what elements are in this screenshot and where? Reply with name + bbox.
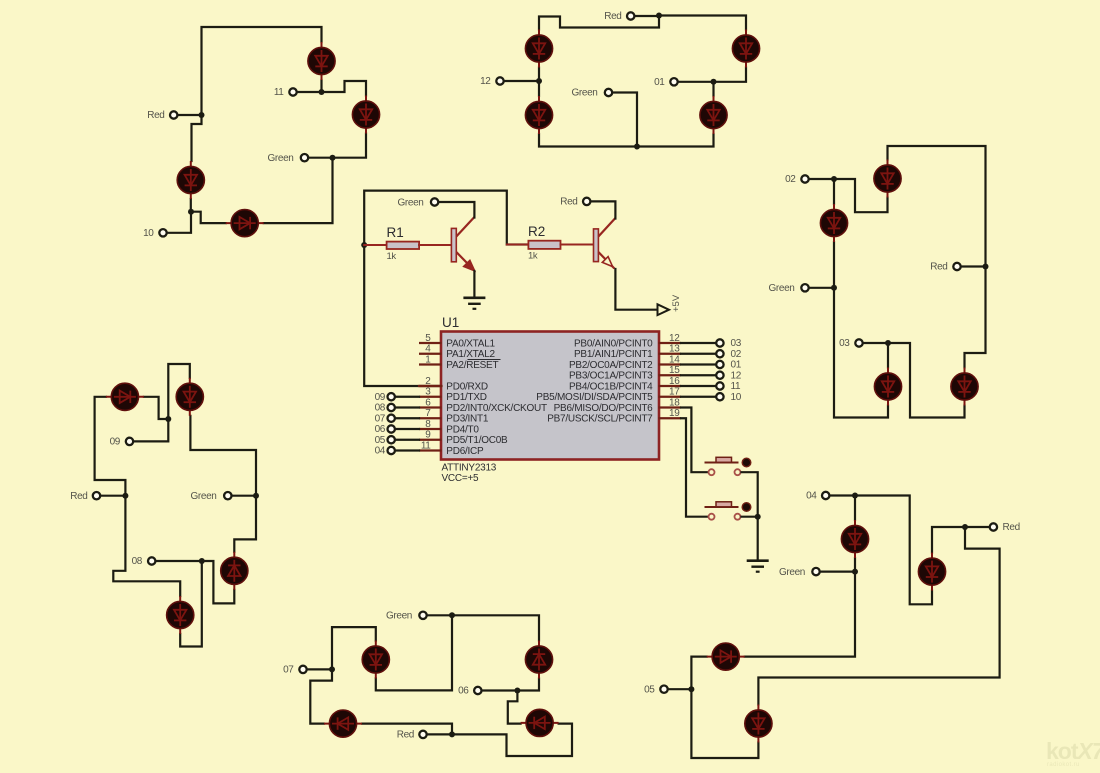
- junction R-a: [983, 264, 989, 270]
- pin 1 PA2/RESET stub: [419, 363, 442, 365]
- junction BM-b: [329, 666, 335, 672]
- terminal 05 U1: [388, 436, 395, 443]
- pin 15 PB3/OC1A/PCINT3 stub: [659, 374, 682, 376]
- wire TL 10 stub: [167, 212, 191, 233]
- wire BM Green stub: [428, 614, 453, 616]
- svg-text:PA1/XTAL2: PA1/XTAL2: [446, 349, 495, 360]
- svg-text:1: 1: [425, 354, 431, 365]
- LED D22: [707, 643, 745, 670]
- svg-text:kotX7: kotX7: [1046, 738, 1100, 764]
- resistor R1: [387, 242, 420, 249]
- wire BR D23 loop: [758, 527, 999, 705]
- wire TL Green to D2: [333, 134, 367, 158]
- svg-text:PB2/OC0A/PCINT2: PB2/OC0A/PCINT2: [569, 360, 653, 371]
- terminal Green LM: [224, 492, 231, 499]
- wire TM Red stub: [635, 15, 659, 17]
- svg-text:Red: Red: [70, 491, 87, 502]
- svg-text:6: 6: [425, 397, 431, 408]
- wire TL jog to D4: [191, 212, 226, 223]
- svg-text:09: 09: [375, 392, 386, 403]
- junction TL-b: [188, 209, 194, 215]
- junction SW node: [755, 514, 761, 520]
- wire R 03 to D12: [888, 343, 965, 418]
- wire BR Green stub: [820, 570, 855, 572]
- wire BR Red stub: [965, 526, 989, 528]
- wire pin net 02 R: [681, 353, 716, 355]
- svg-text:PD4/T0: PD4/T0: [446, 424, 479, 435]
- wire pin net 01 R: [681, 363, 716, 365]
- transistor Q1: [451, 217, 474, 271]
- wire pin2 ext: [419, 385, 442, 387]
- LED D4: [226, 210, 264, 237]
- svg-text:06: 06: [458, 686, 469, 697]
- terminal 03 U1R: [716, 339, 723, 346]
- svg-text:13: 13: [669, 344, 680, 355]
- LED D23: [745, 705, 772, 743]
- terminal 02: [801, 175, 808, 182]
- wire LM Green stub: [232, 495, 256, 497]
- terminal 11 U1R: [716, 382, 723, 389]
- wire pin net 04: [395, 449, 419, 451]
- svg-text:17: 17: [669, 387, 680, 398]
- terminal 05: [660, 686, 667, 693]
- LED D8: [700, 96, 727, 134]
- junction LM-b: [199, 558, 205, 564]
- wire BM Red stub: [428, 733, 453, 735]
- terminal 04 U1: [388, 447, 395, 454]
- junction BM-d: [514, 688, 520, 694]
- wire TL 11 stub: [297, 91, 322, 93]
- wire LM D13 right: [144, 397, 168, 419]
- wire pin net 08: [395, 406, 419, 408]
- wire LM left drop: [113, 496, 180, 596]
- wire LM D15 bottom: [180, 561, 202, 647]
- wire BR D21 top: [854, 496, 856, 521]
- svg-text:9: 9: [425, 430, 431, 441]
- wire R top: [888, 146, 986, 267]
- wire TM top right: [659, 16, 746, 30]
- wire pin net 10 R: [681, 396, 716, 398]
- LED D24: [918, 553, 945, 591]
- svg-text:19: 19: [669, 408, 680, 419]
- wire R D10 bottom: [833, 242, 835, 288]
- terminal 08: [148, 557, 155, 564]
- terminal Green TM: [605, 89, 612, 96]
- wire R Red stub: [961, 265, 986, 267]
- wire BR 05 to D23: [691, 689, 758, 758]
- LED D10: [820, 204, 847, 242]
- terminal Red LM: [93, 492, 100, 499]
- pin 2 PD0/RXD stub: [419, 385, 442, 387]
- junction BM-c: [449, 731, 455, 737]
- svg-text:PB1/AIN1/PCINT1: PB1/AIN1/PCINT1: [574, 349, 653, 360]
- wire TM 01 stub: [679, 81, 714, 83]
- svg-text:07: 07: [283, 665, 294, 676]
- terminal Red BR: [990, 523, 997, 530]
- wire pin net 05: [395, 439, 419, 441]
- wire LM D14 top: [168, 364, 190, 419]
- svg-text:05: 05: [375, 435, 386, 446]
- wire BM D19 right: [362, 724, 452, 735]
- svg-text:Green: Green: [779, 567, 805, 578]
- wire Q2 collector net: [591, 201, 615, 218]
- terminal Red R: [953, 263, 960, 270]
- svg-text:08: 08: [375, 403, 386, 414]
- wire TM bottom: [539, 134, 714, 147]
- svg-text:PD3/INT1: PD3/INT1: [446, 414, 489, 425]
- svg-text:5: 5: [425, 333, 431, 344]
- svg-text:PD5/T1/OC0B: PD5/T1/OC0B: [446, 435, 508, 446]
- terminal 11: [289, 88, 296, 95]
- wire BR 04 stub: [830, 494, 855, 496]
- LED D14: [176, 378, 203, 416]
- svg-text:PD6/ICP: PD6/ICP: [446, 446, 484, 457]
- wire BM D20 left: [508, 691, 521, 724]
- terminal 01 U1R: [716, 361, 723, 368]
- svg-text:08: 08: [132, 556, 143, 567]
- pin 11 PD6/ICP stub: [419, 449, 442, 451]
- wire R right drop: [965, 267, 986, 368]
- svg-text:PB3/OC1A/PCINT3: PB3/OC1A/PCINT3: [569, 371, 653, 382]
- LED D21: [841, 520, 868, 558]
- wire Q1 emitter net: [473, 271, 475, 297]
- wire BM 07 to D17: [332, 627, 376, 669]
- terminal 03: [855, 339, 862, 346]
- wire LM 08 to D16: [202, 561, 235, 603]
- wire R2 left lead: [507, 244, 529, 246]
- wire R2 right lead: [561, 244, 594, 246]
- junction R-c: [831, 285, 837, 291]
- svg-text:02: 02: [785, 174, 796, 185]
- svg-text:VCC=+5: VCC=+5: [442, 473, 480, 484]
- wire TL Green stub: [309, 157, 333, 159]
- watermark: [1046, 738, 1100, 768]
- svg-text:18: 18: [669, 397, 680, 408]
- wire Q2 emitter net: [615, 269, 657, 310]
- svg-text:+5V: +5V: [671, 294, 682, 312]
- svg-text:Green: Green: [190, 491, 216, 502]
- terminal 06 U1: [388, 425, 395, 432]
- wire pin net 11 R: [681, 385, 716, 387]
- LED D18: [525, 641, 552, 679]
- svg-text:R2: R2: [528, 224, 545, 239]
- pin 7 PD3/INT1 stub: [419, 417, 442, 419]
- svg-text:01: 01: [654, 77, 665, 88]
- wire BM Green to D18: [452, 615, 539, 640]
- pin 12 PB0/AIN0/PCINT0 stub: [659, 342, 682, 344]
- wire pin net 06: [395, 428, 419, 430]
- wire LM Red stub: [101, 495, 125, 497]
- svg-text:Green: Green: [768, 283, 794, 294]
- junction LM-d: [165, 416, 171, 422]
- LED D7: [732, 30, 759, 68]
- LED D19: [324, 710, 362, 737]
- svg-text:04: 04: [806, 491, 817, 502]
- terminal Red Q2: [583, 198, 590, 205]
- wire pin net 12 R: [681, 374, 716, 376]
- terminal Red TM: [627, 12, 634, 19]
- wire TM D5 top jog: [539, 16, 659, 30]
- svg-text:12: 12: [669, 333, 680, 344]
- junction TL-c: [330, 155, 336, 161]
- wire R Green stub: [809, 287, 834, 289]
- wire pin net 07: [395, 417, 419, 419]
- wire R 02 stub: [809, 178, 834, 180]
- terminal 12: [496, 77, 503, 84]
- svg-text:ATTINY2313: ATTINY2313: [442, 463, 497, 474]
- svg-text:PB6/MISO/DO/PCINT6: PB6/MISO/DO/PCINT6: [554, 403, 654, 414]
- push button SW1: [705, 457, 751, 475]
- wire pin net 03 R: [681, 342, 716, 344]
- wire TL D4 to riser: [264, 158, 333, 223]
- pin 3 PD1/TXD stub: [419, 396, 442, 398]
- wire R left drop: [834, 288, 888, 418]
- svg-text:Red: Red: [560, 197, 577, 208]
- svg-text:Green: Green: [571, 88, 597, 99]
- wire TL left jog: [192, 115, 202, 161]
- wire BM Green drop: [376, 615, 452, 690]
- terminal 04: [822, 492, 829, 499]
- wire LM D16 top: [234, 496, 256, 552]
- LED D15: [167, 596, 194, 634]
- svg-text:Red: Red: [397, 730, 414, 741]
- +5V supply symbol: [658, 294, 683, 315]
- junction TM-a: [656, 13, 662, 19]
- junction TM-b: [536, 78, 542, 84]
- junction LM-a: [122, 493, 128, 499]
- LED D9: [874, 160, 901, 198]
- wire pin19 to SW2: [681, 418, 708, 516]
- wire SW1 to SW2: [742, 472, 758, 517]
- svg-text:PA0/XTAL1: PA0/XTAL1: [446, 338, 495, 349]
- svg-text:Green: Green: [386, 611, 412, 622]
- svg-text:1k: 1k: [528, 251, 538, 262]
- wire TM 12 stub: [505, 80, 540, 82]
- junction BR-d: [962, 524, 968, 530]
- svg-text:radiokot.ru: radiokot.ru: [1047, 762, 1080, 768]
- svg-text:16: 16: [669, 376, 680, 387]
- terminal 01: [670, 78, 677, 85]
- wire TL D2 top jog: [322, 81, 367, 96]
- wire BR Green drop: [745, 572, 855, 657]
- wire pin18 to SW1: [681, 408, 708, 473]
- junction R-b: [831, 176, 837, 182]
- svg-text:12: 12: [731, 370, 742, 381]
- wire R 03 stub: [863, 342, 888, 344]
- pin 8 PD4/T0 stub: [419, 428, 442, 430]
- wire BM 06 stub: [482, 689, 517, 691]
- svg-text:11: 11: [421, 440, 431, 451]
- ground GND SW: [747, 561, 769, 572]
- LED D11: [874, 368, 901, 406]
- svg-text:PD0/RXD: PD0/RXD: [446, 381, 488, 392]
- LED D3: [177, 161, 204, 199]
- svg-text:4: 4: [425, 344, 431, 355]
- svg-text:04: 04: [375, 446, 386, 457]
- LED D6: [525, 96, 552, 134]
- terminal 07: [299, 666, 306, 673]
- wire Q1 collector net: [439, 202, 474, 218]
- wire BR D22 left: [691, 657, 706, 690]
- wire net base frame: [364, 191, 528, 386]
- pin 4 PA1/XTAL2 stub: [419, 353, 442, 355]
- wire BM 07 to D19: [310, 669, 332, 723]
- wire TM D6 top: [538, 81, 540, 96]
- wire TM D8 top: [712, 82, 714, 96]
- wire R D9 jog: [834, 179, 888, 212]
- terminal Green Q1: [431, 198, 438, 205]
- LED D13: [106, 383, 144, 410]
- svg-text:02: 02: [731, 349, 742, 360]
- transistor Q2: [594, 218, 616, 269]
- wire TL Red stub: [178, 114, 202, 116]
- svg-text:PB4/OC1B/PCINT4: PB4/OC1B/PCINT4: [569, 381, 653, 392]
- LED D12: [951, 368, 978, 406]
- wire SW2 right: [742, 516, 758, 518]
- wire BM 07 stub: [308, 668, 333, 670]
- svg-text:Green: Green: [397, 197, 423, 208]
- wire BM 06 to D18: [517, 679, 539, 691]
- terminal Green BM: [419, 612, 426, 619]
- wire BM Red to D20: [452, 724, 572, 756]
- junction BR-c: [688, 686, 694, 692]
- svg-text:PB5/MOSI/DI/SDA/PCINT5: PB5/MOSI/DI/SDA/PCINT5: [536, 392, 653, 403]
- pin 14 PB2/OC0A/PCINT2 stub: [659, 363, 682, 365]
- wire LM Green to D14: [190, 416, 256, 496]
- svg-text:Red: Red: [1003, 522, 1020, 533]
- junction BR-b: [852, 569, 858, 575]
- svg-text:PA2/RESET: PA2/RESET: [446, 360, 498, 371]
- terminal 06: [474, 687, 481, 694]
- wire TL top: [202, 27, 322, 115]
- junction TL-a: [199, 112, 205, 118]
- wire TM D7 bottom: [714, 68, 747, 82]
- terminal 02 U1R: [716, 350, 723, 357]
- terminal Red TL: [170, 111, 177, 118]
- svg-text:Red: Red: [147, 110, 164, 121]
- svg-text:R1: R1: [387, 225, 404, 240]
- svg-text:03: 03: [839, 338, 850, 349]
- junction BR-a: [852, 493, 858, 499]
- svg-text:05: 05: [644, 684, 655, 695]
- svg-text:PB7/USCK/SCL/PCINT7: PB7/USCK/SCL/PCINT7: [547, 414, 653, 425]
- terminal 08 U1: [388, 404, 395, 411]
- wire R1 right lead: [419, 244, 452, 246]
- terminal Green TL: [301, 154, 308, 161]
- wire R D11 top: [887, 343, 889, 368]
- pin 17 PB5/MOSI/DI/SDA/PCINT5 stub: [659, 396, 682, 398]
- svg-text:11: 11: [274, 87, 284, 98]
- LED D17: [362, 641, 389, 679]
- terminal 12 U1R: [716, 372, 723, 379]
- wire BR D24 loop: [855, 496, 932, 605]
- pin 9 PD5/T1/OC0B stub: [419, 439, 442, 441]
- terminal Green R: [801, 284, 808, 291]
- terminal 07 U1: [388, 415, 395, 422]
- pin 6 PD2/INT0/XCK/CKOUT stub: [419, 406, 442, 408]
- pin 18 PB6/MISO/DO/PCINT6 stub: [659, 406, 682, 408]
- svg-text:Red: Red: [604, 11, 621, 22]
- LED D16: [221, 552, 248, 590]
- terminal 09 U1: [388, 393, 395, 400]
- wire BR 05 stub: [669, 688, 692, 690]
- wire BR Red to D24: [932, 527, 965, 553]
- terminal 10: [159, 229, 166, 236]
- wire R1 left lead: [364, 244, 386, 246]
- junction LM-c: [253, 493, 259, 499]
- svg-text:8: 8: [425, 419, 431, 430]
- pin 13 PB1/AIN1/PCINT1 stub: [659, 353, 682, 355]
- terminal 10 U1R: [716, 393, 723, 400]
- pin 19 PB7/USCK/SCL/PCINT7 stub: [659, 417, 682, 419]
- terminal 09: [126, 438, 133, 445]
- svg-text:PD2/INT0/XCK/CKOUT: PD2/INT0/XCK/CKOUT: [446, 403, 547, 414]
- op-amp U1 body: [441, 332, 659, 460]
- svg-text:14: 14: [669, 354, 680, 365]
- svg-text:PD1/TXD: PD1/TXD: [446, 392, 487, 403]
- wire TL D3 bottom: [190, 199, 192, 212]
- svg-text:11: 11: [731, 381, 741, 392]
- svg-text:Green: Green: [267, 153, 293, 164]
- terminal Red BM: [419, 731, 426, 738]
- svg-text:3: 3: [425, 387, 431, 398]
- wire pin net 09: [395, 396, 419, 398]
- junction TM-d: [711, 79, 717, 85]
- wire TM Green drop: [613, 93, 637, 147]
- junction TM-c: [634, 144, 640, 150]
- svg-text:7: 7: [425, 408, 431, 419]
- svg-text:10: 10: [731, 392, 742, 403]
- svg-text:10: 10: [143, 228, 154, 239]
- wire R D10 top: [833, 179, 835, 204]
- resistor R2: [528, 241, 560, 249]
- junction TL-d: [319, 89, 325, 95]
- svg-text:06: 06: [375, 424, 386, 435]
- wire LM D13 left: [95, 397, 126, 496]
- LED D5: [525, 30, 552, 68]
- LED D1: [308, 42, 335, 80]
- wire LM 08 stub: [156, 560, 202, 562]
- svg-text:01: 01: [731, 360, 742, 371]
- wire SW to ground: [757, 517, 759, 560]
- junction R-d: [885, 340, 891, 346]
- svg-text:Red: Red: [930, 262, 947, 273]
- svg-text:1k: 1k: [387, 251, 397, 262]
- svg-text:15: 15: [669, 365, 680, 376]
- LED D20: [521, 709, 559, 736]
- ground GND Q1: [463, 298, 485, 309]
- junction R1 node: [361, 242, 367, 248]
- LED D2: [352, 96, 379, 134]
- wire BR D21 bottom: [854, 558, 856, 572]
- junction BM-a: [449, 612, 455, 618]
- terminal Green BR: [812, 568, 819, 575]
- svg-text:03: 03: [731, 338, 742, 349]
- svg-text:09: 09: [110, 437, 121, 448]
- svg-text:PB0/AIN0/PCINT0: PB0/AIN0/PCINT0: [574, 338, 653, 349]
- pin 5 PA0/XTAL1 stub: [419, 342, 442, 344]
- pin 16 PB4/OC1B/PCINT4 stub: [659, 385, 682, 387]
- wire TL D1 bottom: [320, 80, 322, 92]
- svg-text:12: 12: [480, 76, 491, 87]
- push button SW2: [705, 502, 751, 520]
- svg-text:07: 07: [375, 413, 386, 424]
- wire TM D5 bottom: [538, 68, 540, 82]
- svg-text:U1: U1: [442, 315, 459, 330]
- wire LM 09 stub: [134, 419, 168, 441]
